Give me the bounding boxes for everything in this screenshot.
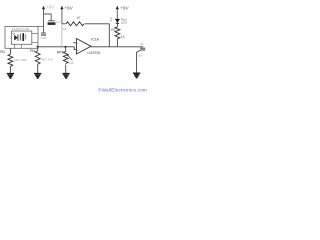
svg-text:R3: R3 [63,27,67,31]
wire - input stub [73,42,76,44]
background [0,0,150,95]
power +9V arrow right [116,5,130,10]
capacitor C1 [41,33,47,40]
wire jog into + input [74,47,76,50]
detector element [20,33,26,41]
capacitor C2 output [137,42,146,73]
svg-text:1K: 1K [76,16,81,20]
svg-text:10K-100K: 10K-100K [14,58,27,62]
ground below R4 [34,74,41,79]
wire box top-right to +9V line [38,26,44,28]
ground right [133,73,140,78]
svg-text:IC1A: IC1A [91,38,99,42]
junction box corner [37,46,39,48]
ground below R1 [7,74,14,79]
svg-text:C2: C2 [140,42,144,46]
wire +9V center down [61,9,63,24]
resistor R4 [30,47,53,73]
photodiode D1 [12,33,18,41]
capacitor C3 [48,20,61,25]
sensor module box U2 [5,27,38,49]
inner sensor box [12,31,32,44]
svg-text:100n: 100n [41,36,47,40]
svg-text:4K7-10K: 4K7-10K [41,57,53,61]
wire R2 to output [116,39,118,47]
svg-text:©WallElectronics.com: ©WallElectronics.com [98,87,147,93]
wire output [91,46,143,48]
svg-text:R4: R4 [30,49,35,53]
svg-text:+9V: +9V [46,5,54,10]
wire LED to R2 [116,23,118,26]
junction pot wiper node [64,46,66,48]
power +9V arrow left [42,5,54,10]
svg-text:+9V: +9V [120,5,129,10]
wire node A: box to op-amp input [38,46,74,48]
ground below RP1 [62,74,69,79]
svg-text:+: + [77,49,79,53]
svg-text:10u: 10u [56,20,61,24]
svg-text:LED: LED [121,21,128,25]
svg-text:10K: 10K [69,61,74,65]
wire R3 to output [85,24,110,47]
wire +9V left down [43,9,45,33]
svg-text:TSOP1738: TSOP1738 [11,27,29,31]
resistor R3 1K [62,16,84,31]
potentiometer RP1 [57,47,74,73]
LED D2 Red [110,17,128,25]
power +9V arrow center [60,5,73,10]
resistor R1 [0,48,27,73]
svg-text:+9V: +9V [64,5,73,10]
wire +9V right down [116,9,118,20]
svg-text:R1: R1 [0,50,5,54]
svg-text:LM393N: LM393N [88,51,101,55]
resistor R2 1K [111,27,125,39]
svg-text:10u: 10u [137,53,142,57]
wire faint center vertical [61,24,63,47]
wire branch to C3 [44,14,52,20]
op-amp IC1A [76,38,99,54]
box pin stubs [32,33,38,35]
